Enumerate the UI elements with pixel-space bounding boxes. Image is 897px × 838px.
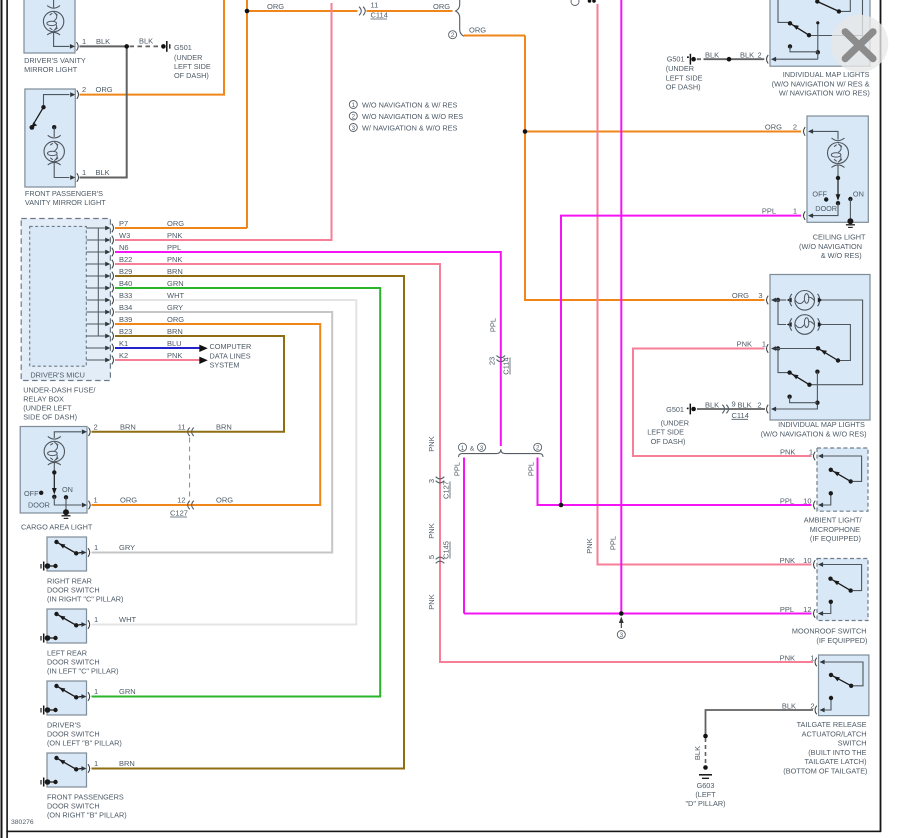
node variant tag 1 top (cut off) — [571, 0, 596, 6]
connector C127 pin 11 — [188, 428, 194, 437]
frame border left line 1 — [1, 0, 3, 838]
MICU internal pin bus wire — [86, 228, 105, 360]
ground G501 for map lights 2 with connector C114 pin 9 — [647, 399, 761, 446]
svg-text:BLK: BLK — [693, 746, 702, 760]
moonroof switch — [814, 559, 869, 621]
svg-text:PNK: PNK — [780, 556, 795, 565]
ground G501 top — [139, 37, 211, 81]
svg-text:C145: C145 — [442, 541, 451, 559]
svg-text:10: 10 — [803, 497, 811, 506]
svg-text:OF DASH): OF DASH) — [174, 71, 209, 80]
svg-text:1: 1 — [94, 615, 98, 624]
svg-text:GRN: GRN — [119, 687, 136, 696]
svg-text:380276: 380276 — [11, 819, 34, 826]
wire WHT from MICU pin B33 to left rear door switch — [92, 300, 357, 625]
node variant tag 1 and 3 — [458, 443, 485, 452]
svg-text:PNK: PNK — [427, 436, 436, 451]
driver's MICU inner box — [30, 226, 87, 366]
svg-text:(ON RIGHT "B" PILLAR): (ON RIGHT "B" PILLAR) — [47, 811, 127, 820]
wire BLK dashed to ground G501 — [130, 45, 161, 47]
wire BLU from MICU pin K1 to computer data lines — [115, 347, 200, 349]
svg-text:(BOTTOM OF TAILGATE): (BOTTOM OF TAILGATE) — [783, 767, 867, 776]
svg-text:C114: C114 — [502, 357, 511, 374]
junction node P7-ORG top — [245, 9, 250, 14]
svg-text:SYSTEM: SYSTEM — [210, 361, 240, 370]
svg-text:2: 2 — [451, 32, 455, 39]
svg-text:(IF EQUIPPED): (IF EQUIPPED) — [816, 636, 867, 645]
connector C145 pin 5 on PNK wire — [436, 557, 445, 563]
svg-text:LEFT REAR: LEFT REAR — [47, 649, 87, 658]
connector C114 pin 11 — [359, 7, 365, 16]
svg-text:DATA LINES: DATA LINES — [210, 351, 251, 360]
svg-text:K1: K1 — [119, 339, 128, 348]
svg-text:2: 2 — [94, 423, 98, 432]
svg-text:WHT: WHT — [167, 291, 184, 300]
svg-text:PPL: PPL — [780, 497, 794, 506]
svg-text:BLK: BLK — [96, 168, 110, 177]
wire PNK map lights pin 1 to ambient light pin 1 — [633, 349, 812, 457]
svg-text:(UNDER LEFT: (UNDER LEFT — [23, 404, 72, 413]
wire PPL from top down to junction at moonroof branch — [620, 0, 622, 614]
junction node BLK tailgate lower — [703, 765, 708, 770]
svg-text:PPL: PPL — [762, 207, 776, 216]
junction node ORG ceiling branch — [523, 129, 528, 134]
svg-text:C127: C127 — [442, 481, 451, 499]
svg-text:C127: C127 — [170, 509, 188, 518]
legend variant 1 — [349, 100, 457, 109]
svg-text:PNK: PNK — [427, 523, 436, 538]
svg-text:5: 5 — [427, 555, 436, 559]
node computer data lines arrow K1 — [199, 345, 208, 352]
svg-text:PNK: PNK — [167, 231, 182, 240]
connector brace variant split top — [456, 0, 464, 36]
wire ORG front passenger vanity pin 2 up to top — [80, 0, 225, 95]
under-dash fuse/relay box outer (driver's MICU container) — [21, 219, 110, 381]
svg-text:BRN: BRN — [167, 267, 183, 276]
junction node PPL ambient branch — [559, 503, 564, 508]
svg-text:ORG: ORG — [469, 26, 486, 35]
svg-text:1: 1 — [94, 687, 98, 696]
svg-text:(ON LEFT "B" PILLAR): (ON LEFT "B" PILLAR) — [47, 739, 122, 748]
svg-text:ORG: ORG — [167, 315, 184, 324]
wire PNK from MICU pin B22 down to tailgate release pin 1 — [115, 264, 813, 662]
svg-text:3: 3 — [480, 445, 484, 452]
svg-text:PPL: PPL — [453, 462, 462, 476]
wire BLK map lights 1 to ground G501 — [697, 58, 765, 60]
junction node BLK map lights 1 — [727, 57, 732, 62]
wire PPL branch 1and3 to moonroof switch pin 12 — [464, 458, 812, 614]
svg-text:(W/O NAVIGATION W/ RES &: (W/O NAVIGATION W/ RES & — [772, 79, 870, 88]
svg-text:2: 2 — [810, 702, 814, 711]
svg-text:ORG: ORG — [216, 496, 233, 505]
svg-text:ORG: ORG — [167, 219, 184, 228]
svg-text:DRIVER'S VANITY: DRIVER'S VANITY — [24, 56, 86, 65]
svg-text:G603: G603 — [697, 781, 715, 790]
svg-text:1: 1 — [793, 207, 797, 216]
wire BRN from MICU pin B23 to cargo area light pin 2 — [92, 336, 285, 432]
svg-text:W3: W3 — [119, 231, 130, 240]
right rear door switch — [41, 537, 90, 571]
left rear door switch — [41, 609, 90, 643]
svg-text:(IF EQUIPPED): (IF EQUIPPED) — [810, 534, 861, 543]
svg-text:1: 1 — [352, 102, 356, 109]
svg-text:RELAY BOX: RELAY BOX — [23, 395, 64, 404]
value label PPL rotated right stub — [527, 462, 536, 476]
svg-text:C114: C114 — [732, 411, 749, 420]
individual map lights unit 1 (top right, cut off) — [767, 0, 871, 66]
svg-text:1: 1 — [762, 339, 766, 348]
svg-text:PNK: PNK — [737, 339, 752, 348]
svg-text:SIDE OF DASH): SIDE OF DASH) — [23, 413, 77, 422]
svg-text:B39: B39 — [119, 315, 132, 324]
wire PNK variant-1 from top down to moonroof switch pin 10 — [598, 4, 812, 565]
ceiling light — [804, 116, 869, 227]
wire GRY from MICU pin B34 to right rear door switch — [92, 312, 333, 553]
junction node PPL moonroof branch — [619, 611, 624, 616]
svg-text:ORG: ORG — [433, 2, 450, 11]
svg-text:N6: N6 — [119, 243, 129, 252]
value label PPL rotated left stub — [453, 462, 462, 476]
driver's door switch — [41, 681, 90, 715]
MICU pin arrows P7 W3 N6 B22 B29 B40 B33 B34 B39 B23 K1 K2 — [105, 226, 110, 363]
svg-text:OFF: OFF — [24, 489, 39, 498]
svg-text:C114: C114 — [371, 11, 388, 20]
value label PNK rotated upper — [427, 436, 436, 451]
svg-text:PNK: PNK — [585, 538, 594, 553]
svg-text:W/O NAVIGATION & W/ RES: W/O NAVIGATION & W/ RES — [362, 100, 458, 109]
svg-text:LEFT SIDE: LEFT SIDE — [666, 73, 703, 82]
svg-text:PPL: PPL — [527, 462, 536, 476]
svg-text:10: 10 — [803, 556, 811, 565]
svg-text:AMBIENT LIGHT/: AMBIENT LIGHT/ — [804, 516, 863, 525]
wire GRN from MICU pin B40 to driver door switch — [92, 288, 381, 697]
svg-text:MIRROR LIGHT: MIRROR LIGHT — [24, 65, 78, 74]
svg-text:ORG: ORG — [96, 85, 113, 94]
wire BRN from MICU pin B29 to front passenger door switch — [92, 276, 405, 769]
svg-text:1: 1 — [94, 496, 98, 505]
connector link C127 dashed — [189, 438, 191, 501]
frame border left line 2 — [6, 0, 8, 838]
wire PNK from MICU pin K2 to computer data lines — [115, 359, 200, 361]
svg-text:1: 1 — [810, 654, 814, 663]
svg-text:P7: P7 — [119, 219, 128, 228]
svg-text:PNK: PNK — [167, 351, 182, 360]
wire PPL from MICU pin N6 to C114 and brace — [115, 252, 501, 446]
svg-text:B22: B22 — [119, 255, 132, 264]
svg-text:PNK: PNK — [780, 448, 795, 457]
svg-text:PPL: PPL — [609, 536, 618, 550]
value label PNK rotated middle — [427, 523, 436, 538]
value label PNK rotated lower — [427, 594, 436, 609]
svg-text:"D" PILLAR): "D" PILLAR) — [685, 799, 725, 808]
svg-text:LEFT SIDE: LEFT SIDE — [174, 62, 211, 71]
svg-text:ON: ON — [62, 485, 73, 494]
svg-text:OF DASH): OF DASH) — [651, 437, 686, 446]
svg-text:ACTUATOR/LATCH: ACTUATOR/LATCH — [802, 729, 867, 738]
wire PNK from MICU pin W3 up to top — [115, 3, 332, 240]
node computer data lines arrow K2 — [199, 357, 208, 364]
legend variant 3 — [349, 123, 457, 132]
legend variant 2 — [349, 112, 463, 121]
svg-text:1: 1 — [461, 445, 465, 452]
svg-text:DOOR: DOOR — [28, 501, 50, 510]
close button — [831, 15, 889, 73]
connector C127 pin 12 — [188, 501, 194, 510]
svg-text:W/O NAVIGATION & W/O RES: W/O NAVIGATION & W/O RES — [362, 112, 463, 121]
front passenger's vanity mirror light L2 — [25, 89, 79, 187]
svg-text:OF DASH): OF DASH) — [666, 83, 701, 92]
wire BLK driver vanity pin 1 to G501 and down to passenger vanity pin 1 — [80, 46, 127, 177]
ground G603 — [685, 746, 725, 808]
svg-text:G501: G501 — [666, 405, 684, 414]
svg-text:B29: B29 — [119, 267, 132, 276]
svg-text:& W/O RES): & W/O RES) — [821, 251, 862, 260]
frame border bottom line — [6, 831, 581, 833]
svg-text:FRONT PASSENGERS: FRONT PASSENGERS — [47, 793, 124, 802]
svg-text:BLK: BLK — [96, 37, 110, 46]
svg-text:VANITY MIRROR LIGHT: VANITY MIRROR LIGHT — [25, 198, 106, 207]
wire ORG from MICU pin P7 up and across top — [115, 0, 453, 228]
svg-text:11: 11 — [178, 423, 186, 432]
svg-text:3: 3 — [620, 632, 624, 639]
svg-text:3: 3 — [352, 125, 356, 132]
value label PPL rotated on variant-3 wire — [609, 536, 618, 550]
svg-text:BRN: BRN — [167, 327, 183, 336]
svg-text:B34: B34 — [119, 303, 132, 312]
svg-text:DOOR SWITCH: DOOR SWITCH — [47, 586, 100, 595]
svg-text:1: 1 — [82, 168, 86, 177]
connector brace variant split on PPL — [459, 449, 544, 457]
svg-text:TAILGATE LATCH): TAILGATE LATCH) — [804, 757, 866, 766]
wire BLK dashed segment to G603 — [705, 738, 707, 767]
svg-text:DOOR SWITCH: DOOR SWITCH — [47, 802, 100, 811]
svg-text:3: 3 — [427, 479, 436, 483]
svg-text:2: 2 — [758, 51, 762, 60]
svg-text:PPL: PPL — [780, 605, 794, 614]
svg-text:(UNDER: (UNDER — [661, 418, 689, 427]
svg-text:PNK: PNK — [167, 255, 182, 264]
svg-text:DRIVER'S: DRIVER'S — [47, 721, 81, 730]
svg-text:12: 12 — [177, 496, 185, 505]
svg-text:1: 1 — [94, 759, 98, 768]
svg-text:(W/O NAVIGATION: (W/O NAVIGATION — [799, 242, 862, 251]
svg-text:BLK: BLK — [782, 702, 796, 711]
tailgate release actuator/latch switch — [815, 655, 869, 716]
svg-text:ORG: ORG — [120, 496, 137, 505]
ambient light / microphone — [814, 448, 869, 511]
svg-text:MICROPHONE: MICROPHONE — [810, 525, 860, 534]
svg-text:BRN: BRN — [120, 423, 136, 432]
svg-text:G501: G501 — [667, 55, 685, 64]
svg-text:ORG: ORG — [267, 2, 284, 11]
svg-text:W/ NAVIGATION & W/O RES: W/ NAVIGATION & W/O RES — [362, 123, 458, 132]
driver's vanity mirror light L1 — [24, 0, 78, 53]
svg-text:UNDER-DASH FUSE/: UNDER-DASH FUSE/ — [23, 386, 96, 395]
svg-text:MOONROOF SWITCH: MOONROOF SWITCH — [792, 627, 867, 636]
node variant tag 2 — [534, 443, 542, 451]
svg-text:2: 2 — [352, 113, 356, 120]
svg-text:ORG: ORG — [765, 123, 782, 132]
wire ORG from MICU pin B39 to cargo area light pin 1 — [92, 324, 321, 505]
svg-text:DRIVER'S MICU: DRIVER'S MICU — [30, 371, 85, 380]
svg-text:2: 2 — [757, 400, 761, 409]
svg-text:(UNDER: (UNDER — [666, 64, 694, 73]
node variant tag 3 with arrow at junction — [617, 617, 625, 639]
svg-text:BLK: BLK — [705, 400, 719, 409]
svg-text:PPL: PPL — [167, 243, 181, 252]
svg-text:TAILGATE RELEASE: TAILGATE RELEASE — [797, 720, 867, 729]
svg-text:SWITCH: SWITCH — [838, 739, 867, 748]
svg-text:FRONT PASSENGER'S: FRONT PASSENGER'S — [25, 189, 103, 198]
svg-text:CEILING LIGHT: CEILING LIGHT — [813, 233, 866, 242]
frame border right line — [880, 0, 882, 832]
svg-text:BLU: BLU — [167, 339, 182, 348]
svg-text:DOOR SWITCH: DOOR SWITCH — [47, 730, 100, 739]
svg-text:BRN: BRN — [119, 759, 135, 768]
svg-text:RIGHT REAR: RIGHT REAR — [47, 577, 92, 586]
svg-text:(IN LEFT "C" PILLAR): (IN LEFT "C" PILLAR) — [47, 667, 119, 676]
svg-text:PNK: PNK — [780, 654, 795, 663]
svg-text:B33: B33 — [119, 291, 132, 300]
svg-text:PNK: PNK — [427, 594, 436, 609]
svg-text:LEFT SIDE: LEFT SIDE — [647, 428, 684, 437]
svg-text:(W/O NAVIGATION & W/O RES): (W/O NAVIGATION & W/O RES) — [761, 429, 867, 438]
svg-text:11: 11 — [371, 1, 379, 10]
svg-text:B40: B40 — [119, 279, 132, 288]
svg-text:INDIVIDUAL MAP LIGHTS: INDIVIDUAL MAP LIGHTS — [778, 420, 865, 429]
svg-text:DOOR SWITCH: DOOR SWITCH — [47, 658, 100, 667]
svg-text:GRN: GRN — [167, 279, 184, 288]
svg-text:&: & — [470, 445, 475, 452]
svg-text:ORG: ORG — [732, 291, 749, 300]
cargo area light — [20, 427, 90, 519]
front passengers door switch — [41, 753, 90, 787]
svg-text:2: 2 — [793, 123, 797, 132]
value label PPL rotated above C114-23 — [489, 318, 498, 332]
individual map lights unit 2 — [767, 275, 871, 421]
svg-text:B23: B23 — [119, 327, 132, 336]
value label PNK rotated on variant-1 wire — [585, 538, 594, 553]
svg-text:ON: ON — [853, 189, 864, 198]
junction node BLK vanity — [124, 44, 129, 49]
svg-text:GRY: GRY — [167, 303, 183, 312]
svg-text:BLK: BLK — [139, 37, 153, 46]
wire ORG variant-2 branch to ceiling light and map lights — [464, 36, 801, 301]
svg-text:W/ NAVIGATION W/O RES): W/ NAVIGATION W/O RES) — [779, 89, 870, 98]
svg-text:1: 1 — [94, 543, 98, 552]
svg-text:1: 1 — [82, 37, 86, 46]
svg-text:BLK: BLK — [740, 51, 754, 60]
wire BLK map lights 2 pin 2 to ground G501 via C114 — [697, 408, 765, 410]
svg-text:1: 1 — [809, 448, 813, 457]
svg-text:12: 12 — [803, 605, 811, 614]
svg-text:(BUILT INTO THE: (BUILT INTO THE — [808, 748, 866, 757]
svg-text:3: 3 — [758, 291, 762, 300]
svg-text:K2: K2 — [119, 351, 128, 360]
svg-text:BRN: BRN — [216, 423, 232, 432]
wire PPL branch 2 to ambient light pin 10 — [538, 458, 812, 506]
svg-text:2: 2 — [536, 445, 540, 452]
svg-text:GRY: GRY — [119, 543, 135, 552]
ground G501 for map lights 1 — [666, 51, 719, 92]
svg-text:(LEFT: (LEFT — [695, 790, 716, 799]
svg-text:(IN RIGHT "C" PILLAR): (IN RIGHT "C" PILLAR) — [47, 595, 123, 604]
svg-text:BLK: BLK — [738, 400, 752, 409]
svg-text:CARGO AREA LIGHT: CARGO AREA LIGHT — [21, 523, 93, 532]
svg-text:BLK: BLK — [705, 51, 719, 60]
wire PPL ceiling light pin 1 down to junction — [561, 216, 801, 505]
svg-text:COMPUTER: COMPUTER — [210, 342, 252, 351]
svg-text:G501: G501 — [174, 43, 192, 52]
svg-text:DOOR: DOOR — [815, 204, 837, 213]
svg-text:OFF: OFF — [812, 190, 827, 199]
wire BLK tailgate release pin 2 to ground G603 — [706, 710, 814, 736]
junction node BLK tailgate upper — [703, 734, 708, 739]
node variant tag 2 top — [449, 31, 457, 39]
svg-text:(UNDER: (UNDER — [174, 53, 202, 62]
svg-text:PPL: PPL — [489, 318, 498, 332]
svg-text:23: 23 — [488, 357, 497, 365]
connector C114 pin 23 on PPL wire — [497, 356, 506, 362]
svg-text:WHT: WHT — [119, 615, 136, 624]
svg-text:2: 2 — [82, 85, 86, 94]
svg-text:9: 9 — [732, 399, 736, 408]
connector C127 pin 3 on PNK wire — [436, 477, 445, 483]
